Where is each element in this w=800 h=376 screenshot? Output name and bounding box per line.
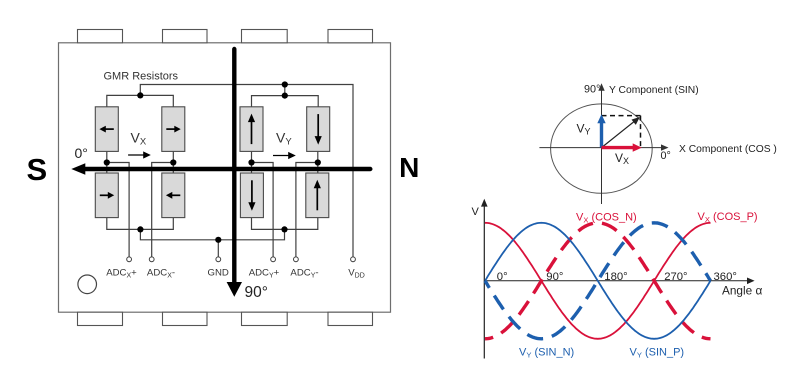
wire: ADCx+ tap xyxy=(107,163,129,257)
resistor R7 (Y-bridge bottom-left, magnetization down) xyxy=(240,173,263,218)
wire: Y-bridge bottom bar xyxy=(252,218,318,230)
svg-text:GMR Resistors: GMR Resistors xyxy=(104,70,179,82)
package leads bottom xyxy=(78,312,373,325)
curve Vx COS_P (red solid) xyxy=(485,223,711,339)
rotating field vector (diagonal arrow) xyxy=(602,117,640,148)
resistor R1 (X-bridge top-left, magnetization left) xyxy=(95,107,118,152)
svg-text:Y Component (SIN): Y Component (SIN) xyxy=(609,85,699,96)
wire: Y-bridge top bar xyxy=(252,96,319,107)
svg-text:270°: 270° xyxy=(664,271,687,283)
svg-text:180°: 180° xyxy=(604,271,627,283)
resistor R8 (Y-bridge bottom-right, magnetization up) xyxy=(306,173,329,218)
wire: X-bridge top bar xyxy=(107,95,174,107)
wire: X-bridge right mid (R2 bottom to R4 top) xyxy=(172,151,174,173)
wire: Y-bridge left mid xyxy=(251,151,253,173)
svg-text:0°: 0° xyxy=(497,271,508,283)
node X left mid xyxy=(104,159,110,165)
wire: ADCy- tap xyxy=(296,163,318,257)
wire: Y-bridge VDD tap xyxy=(284,85,286,96)
waveform y axis (V) xyxy=(481,199,488,359)
svg-text:X Component (COS ): X Component (COS ) xyxy=(679,144,777,155)
curve Vy SIN_N (blue dashed) xyxy=(485,223,711,339)
circle x axis xyxy=(539,144,668,150)
wire: GND rail xyxy=(140,229,284,239)
wire: X-bridge bottom bar xyxy=(107,218,174,230)
field axis arrow 0deg (thick horizontal, points left to S) xyxy=(71,163,370,175)
resistor R6 (Y-bridge top-right, magnetization down) xyxy=(307,107,330,152)
circle y axis xyxy=(598,83,604,204)
dashed projection lines xyxy=(602,116,641,148)
pin ADCx+ xyxy=(127,257,132,262)
svg-text:GND: GND xyxy=(208,267,229,278)
curve Vy SIN_P (blue solid) xyxy=(485,223,711,339)
pin VDD xyxy=(351,257,356,262)
node X-bridge bottom xyxy=(137,226,143,232)
Vy component arrow (blue) xyxy=(597,114,605,147)
arrow under Vy xyxy=(273,152,296,159)
package leads top xyxy=(78,30,373,43)
pin ADCy- xyxy=(294,257,299,262)
svg-text:N: N xyxy=(399,152,419,183)
node X-bridge top xyxy=(137,92,143,98)
pin-1 marker circle xyxy=(78,275,97,294)
wire: ADCy+ tap xyxy=(252,163,274,257)
wire: GND pin tap xyxy=(217,240,219,257)
wire: VDD rail from X-bridge top to VDD pin xyxy=(140,85,353,257)
arrow under Vx xyxy=(128,151,151,158)
resistor R5 (Y-bridge top-left, magnetization up) xyxy=(240,107,263,152)
curve Vx COS_N (red dashed) xyxy=(485,223,711,339)
unit circle xyxy=(551,104,653,193)
wire: Y-bridge right mid xyxy=(317,151,319,173)
node Y right mid xyxy=(315,159,321,165)
svg-text:0°: 0° xyxy=(75,145,88,161)
resistor R3 (X-bridge bottom-left, magnetization right) xyxy=(95,173,118,218)
node Y-bridge bottom xyxy=(281,226,287,232)
waveform x axis (Angle) xyxy=(484,278,754,285)
wire: X-bridge left mid (R1 bottom to R3 top) xyxy=(106,151,108,173)
svg-text:ADCY+: ADCY+ xyxy=(249,267,280,279)
resistor R2 (X-bridge top-right, magnetization right) xyxy=(162,107,185,152)
node GND tap xyxy=(215,237,221,243)
svg-text:90°: 90° xyxy=(546,271,563,283)
Vx component arrow (red) xyxy=(602,143,642,151)
field axis arrow 90deg (thick vertical, points down) xyxy=(227,49,242,297)
chip package body xyxy=(59,43,391,312)
wire: ADCx- tap xyxy=(152,163,174,257)
svg-text:360°: 360° xyxy=(714,271,737,283)
svg-text:S: S xyxy=(27,152,48,187)
pin GND xyxy=(216,257,221,262)
svg-text:0°: 0° xyxy=(661,150,671,162)
svg-text:90°: 90° xyxy=(584,83,600,95)
svg-text:90°: 90° xyxy=(245,284,268,301)
node X right mid xyxy=(170,159,176,165)
pin ADCy+ xyxy=(271,257,276,262)
pin ADCx- xyxy=(149,257,154,262)
svg-text:ADCX+: ADCX+ xyxy=(106,267,137,279)
node Y-bridge top xyxy=(282,93,288,99)
node Y left mid xyxy=(248,159,254,165)
svg-text:V: V xyxy=(472,206,480,218)
svg-text:Angle α: Angle α xyxy=(722,284,762,298)
node VDD rail / Y tap xyxy=(282,81,288,87)
resistor R4 (X-bridge bottom-right, magnetization left) xyxy=(162,173,185,218)
